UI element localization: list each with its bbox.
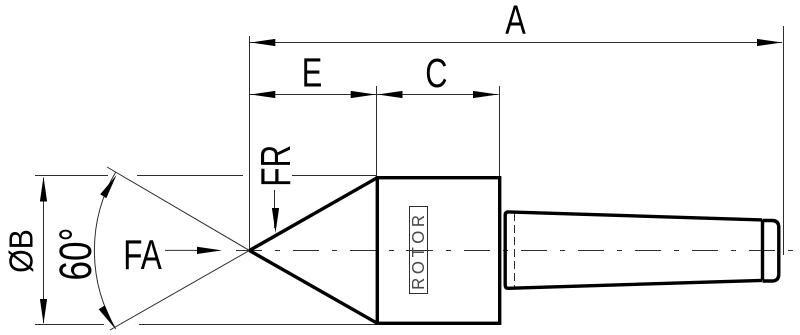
extension line between E and C	[376, 86, 378, 176]
arrow FR	[272, 208, 279, 233]
extension line at cone tip	[249, 36, 251, 250]
label FA	[123, 231, 162, 279]
arrow E right	[351, 91, 376, 98]
svg-text:A: A	[505, 0, 526, 43]
label diameter B	[2, 229, 39, 273]
label A	[505, 0, 526, 43]
svg-text:60°: 60°	[50, 227, 101, 280]
centerline segment through label box	[406, 250, 431, 252]
leader line FR	[274, 190, 276, 228]
hidden line in shank	[514, 213, 516, 288]
dimension line E and C	[250, 94, 499, 96]
svg-text:ØB: ØB	[2, 229, 39, 273]
construction line upper flank extended	[107, 167, 260, 256]
extension line bottom of diameter B	[35, 324, 500, 326]
leader line FA	[165, 249, 205, 251]
centerline	[236, 250, 799, 252]
svg-text:FA: FA	[123, 231, 162, 279]
arrow diameter B top	[40, 177, 47, 202]
arrow E left	[250, 91, 275, 98]
body rectangle	[377, 178, 499, 324]
svg-text:ROTOR: ROTOR	[408, 211, 428, 290]
construction line lower flank extended	[110, 245, 260, 330]
arrow arc lower	[99, 305, 118, 330]
dimension line diameter B	[43, 178, 45, 323]
tang rounded end	[763, 221, 779, 282]
arc 60 degree angular dimension	[94, 172, 115, 329]
arrow A left	[250, 39, 275, 46]
dimension line A	[250, 42, 782, 44]
cone lower flank	[249, 251, 377, 324]
arrow C right	[473, 91, 498, 98]
text group	[2, 0, 526, 281]
label C	[425, 50, 447, 96]
label ROTOR text	[408, 211, 428, 290]
extension line at shank end	[783, 26, 785, 255]
shank outline	[505, 212, 762, 288]
cone upper flank	[249, 178, 377, 251]
label E	[302, 49, 323, 95]
label FR	[252, 145, 300, 187]
arrow FA	[197, 247, 222, 254]
arrow C left	[378, 91, 403, 98]
svg-text:C: C	[425, 50, 447, 96]
extension line top of diameter B	[35, 175, 376, 177]
thick outline group	[249, 178, 778, 324]
step between taper and tang	[761, 220, 764, 281]
extension line at body right	[499, 86, 501, 176]
label box ROTOR	[410, 207, 428, 294]
arrow arc upper	[100, 173, 119, 198]
svg-text:E: E	[302, 49, 323, 95]
arrow diameter B bottom	[40, 299, 47, 324]
svg-text:FR: FR	[252, 145, 300, 187]
arrow A right	[757, 39, 782, 46]
label 60 degrees	[50, 227, 101, 280]
